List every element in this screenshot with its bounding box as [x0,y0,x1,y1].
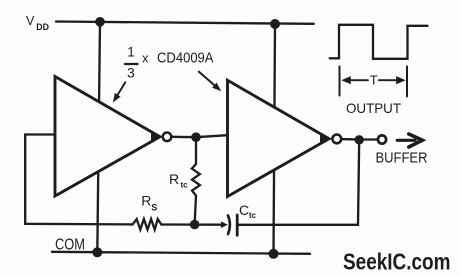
svg-text:3: 3 [127,65,135,81]
inverter U1a [55,77,160,197]
wire Rs to capacitor [161,223,222,226]
wire node A to inverter 2 input [196,135,228,137]
svg-text:V: V [26,14,35,28]
wire inverter1 supply vertical [97,22,100,253]
svg-text:R: R [141,193,151,209]
junction VDD rail to inverter2 [270,19,280,29]
svg-text:OUTPUT: OUTPUT [346,100,401,116]
inverter 1 output bubble [163,133,172,142]
resistor Rtc [192,137,200,224]
wire Ctc to output node [239,140,360,225]
label 1/3 x CD4009A [127,45,214,81]
junction COM to inverter1 [92,247,102,257]
T dimension right arrow [379,76,406,84]
capacitor Ctc curved plate [228,216,230,235]
wire output node to terminal [364,138,377,140]
svg-text:COM: COM [55,236,85,253]
wire bubble to output node [342,138,356,141]
wire inverter1 output to node A [172,136,197,139]
svg-text:tc: tc [249,211,257,220]
svg-text:C: C [239,202,249,218]
output terminal circle [378,135,386,143]
junction VDD rail to inverter1 [95,17,105,27]
T dimension left arrow [341,76,368,84]
output waveform square wave [330,25,428,59]
svg-text:1: 1 [127,45,135,60]
net VDD label [26,14,49,32]
node A junction dot [191,132,201,142]
T dimension right bar [406,67,408,97]
inverter 2 apex wedge [320,134,332,144]
capacitor Ctc left lead wedge [221,221,228,228]
svg-text:x: x [142,50,149,65]
svg-text:DD: DD [36,22,49,32]
fraction bar [125,63,138,65]
wire inverter2 supply vertical [274,24,276,254]
resistor Rs [133,219,162,230]
svg-text:S: S [151,202,157,212]
svg-text:SeekIC.com: SeekIC.com [343,249,451,275]
callout arrow to inverter 2 [199,72,221,92]
inverter 2 output bubble [332,135,341,144]
wire VDD top rail [56,22,314,24]
callout arrow to inverter 1 [113,82,125,102]
svg-text:T: T [370,72,378,87]
inverter 1 apex wedge [151,132,163,141]
buffer arrow [397,134,422,147]
svg-text:BUFFER: BUFFER [376,151,428,167]
label Rtc [169,171,188,190]
wire COM rail [52,252,310,254]
svg-text:tc: tc [181,181,189,190]
junction COM to inverter2 [269,249,279,259]
wire feedback from inverter1 input down and right [25,135,132,225]
output node junction dot [355,135,364,144]
label Rs [141,193,157,213]
svg-text:R: R [169,171,179,187]
svg-text:CD4009A: CD4009A [157,50,214,66]
capacitor Ctc flat plate [236,215,239,235]
inverter U1b [228,80,330,196]
label Ctc [239,202,257,220]
T dimension left bar [339,67,341,96]
node B junction dot [190,220,200,230]
